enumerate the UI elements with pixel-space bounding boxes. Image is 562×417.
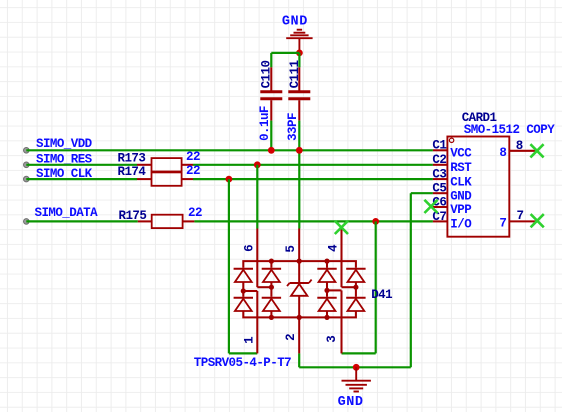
svg-text:2: 2: [284, 334, 298, 341]
node: junction SIMO_RES / D41 pin 6: [254, 161, 261, 168]
svg-text:VCC: VCC: [450, 147, 472, 161]
wire CARD1 C5/GND to bottom ground rail: [411, 192, 433, 194]
svg-text:22: 22: [186, 150, 200, 164]
svg-text:CLK: CLK: [450, 175, 472, 189]
node: junction SIMO_CLK / D41 pin 1 branch: [226, 176, 233, 183]
svg-text:5: 5: [284, 246, 298, 253]
resistor R175: [138, 220, 152, 222]
capacitor C111: [298, 67, 300, 90]
wire SIMO_VDD: [26, 149, 433, 151]
svg-text:D41: D41: [371, 288, 392, 302]
wire SIMO_DATA to R175: [26, 220, 138, 222]
pin 6 lead of D41: [256, 229, 258, 288]
wire R174 to CARD1 C3: [193, 178, 433, 180]
wire SIMO_CLK to R174: [26, 178, 137, 180]
svg-text:33PF: 33PF: [286, 113, 300, 141]
svg-text:7: 7: [517, 209, 524, 223]
power symbol GND (bottom): [355, 367, 357, 380]
diode D41-D lead to midpoint: [326, 282, 328, 297]
zener diode D41-Z (TVS clamp): [298, 261, 300, 283]
wire SIMO_RES to R173: [26, 164, 137, 166]
svg-text:R173: R173: [118, 151, 146, 165]
diode D41-B top lead: [270, 261, 272, 268]
node: D41 col D top rail junction: [324, 259, 329, 264]
svg-text:0.1uF: 0.1uF: [258, 106, 272, 141]
svg-text:4: 4: [327, 244, 341, 252]
svg-text:SIMO_DATA: SIMO_DATA: [35, 206, 99, 220]
svg-text:7: 7: [499, 217, 506, 231]
node: D41 col B midpoint (pin 6): [269, 285, 274, 290]
node: ground rail junction: [353, 364, 360, 371]
node: SIMO_RES left terminal: [24, 162, 30, 168]
svg-text:6: 6: [242, 245, 256, 252]
node: D41 col B top rail junction: [269, 259, 274, 264]
wire SIMO_CLK down to D41 pin 1: [228, 179, 230, 353]
diode array D41 top rail: [243, 261, 356, 268]
svg-text:C1: C1: [432, 139, 446, 153]
wire SIMO_DATA down to D41 pin 3: [375, 221, 377, 353]
svg-text:8: 8: [499, 146, 506, 160]
svg-text:C5: C5: [432, 182, 446, 196]
diode D41-B top: [262, 268, 281, 270]
diode D41-B bottom lead: [270, 311, 272, 317]
node: junction SIMO_DATA / D41 pin 3 branch: [372, 218, 379, 225]
diode D41-B bottom: [262, 297, 281, 299]
pin 8 of CARD1: [509, 150, 537, 152]
wire D41 col A midpoint to pin 1 line: [243, 290, 257, 292]
pin C3/CLK of CARD1: [433, 178, 448, 180]
wire GND to C111: [298, 53, 300, 67]
node: junction C110/SIMO_VDD: [268, 147, 275, 154]
resistor R174: [137, 178, 152, 180]
svg-text:RST: RST: [450, 161, 472, 175]
svg-text:22: 22: [186, 164, 200, 178]
diode D41-A lead to midpoint: [242, 282, 244, 297]
node: SIMO_VDD left terminal: [24, 148, 30, 154]
connector CARD1 body: [447, 137, 509, 237]
pin 2 lead of D41: [298, 317, 300, 353]
diode D41-D top lead: [326, 261, 328, 268]
node: GND junction under top ground: [296, 50, 303, 57]
no-connect X on CARD1 pin 8: [530, 144, 543, 157]
pin C1/VCC of CARD1: [433, 149, 448, 151]
wire C111 column down to D41 pin 5: [298, 121, 300, 229]
diode D41-D bottom: [317, 297, 336, 299]
svg-text:C2: C2: [432, 153, 446, 167]
diode D41-A bottom (anode to GND rail): [234, 297, 253, 299]
node: D41 col B bottom rail junction: [269, 315, 274, 320]
svg-text:C3: C3: [432, 168, 446, 182]
svg-text:C7: C7: [432, 210, 446, 224]
no-connect X on CARD1 pin 7: [531, 214, 544, 227]
wire D41 col D midpoint to pin 3 line: [327, 289, 342, 291]
pin C5/GND of CARD1: [433, 192, 448, 194]
connector CARD1 origin mark: [449, 138, 453, 142]
wire C110 to SIMO_VDD: [270, 121, 272, 151]
svg-text:22: 22: [188, 206, 202, 220]
svg-text:SMO-1512 COPY: SMO-1512 COPY: [464, 123, 555, 137]
diode D41-D bottom lead: [326, 311, 328, 317]
pin C7/I/O of CARD1: [433, 220, 448, 222]
svg-text:8: 8: [516, 139, 523, 153]
wire GND to C110: [271, 52, 299, 54]
svg-text:R174: R174: [118, 165, 147, 179]
node: D41 col D bottom rail junction: [324, 315, 329, 320]
diode D41-E top: [346, 268, 365, 270]
diode D41-A top (cathode to VCC rail): [234, 268, 253, 270]
node: D41 col A midpoint: [241, 288, 246, 293]
svg-text:I/O: I/O: [450, 218, 472, 232]
svg-text:3: 3: [325, 336, 339, 343]
node: D41 col E midpoint (pin 4): [353, 285, 358, 290]
no-connect X on CARD1 pin C6: [424, 200, 437, 213]
node: SIMO_DATA left terminal: [24, 219, 30, 225]
svg-text:VPP: VPP: [450, 203, 471, 217]
pin C6/VPP of CARD1: [433, 206, 448, 208]
node: D41 zener bottom rail junction: [297, 315, 302, 320]
node: D41 zener top rail junction: [297, 259, 302, 264]
pin 4 lead of D41: [340, 228, 342, 288]
node: junction C111/SIMO_VDD: [296, 147, 303, 154]
wire D41 pin 2 to ground rail: [298, 353, 300, 367]
no-connect X on D41 pin 4: [335, 221, 348, 234]
pin 5 lead of D41: [298, 229, 300, 262]
diode D41-E bottom: [346, 297, 365, 299]
svg-text:TPSRV05-4-P-T7: TPSRV05-4-P-T7: [194, 356, 291, 370]
node: SIMO_CLK left terminal: [24, 176, 30, 182]
svg-text:GND: GND: [450, 189, 472, 203]
svg-text:SIMO_VDD: SIMO_VDD: [36, 137, 93, 151]
capacitor C110: [270, 67, 272, 90]
svg-text:GND: GND: [282, 15, 308, 30]
svg-text:GND: GND: [338, 395, 364, 410]
diode D41-E lead to midpoint: [355, 282, 357, 297]
pin 7 of CARD1: [509, 220, 537, 222]
svg-text:1: 1: [242, 337, 256, 344]
diode array D41 bottom rail: [243, 311, 356, 317]
wire R173 to CARD1 C2: [193, 164, 433, 166]
wire SIMO_RES down to D41 pin 6: [256, 165, 258, 229]
diode D41-B lead to midpoint: [270, 282, 272, 297]
diode D41-D top: [317, 268, 336, 270]
pin C2/RST of CARD1: [433, 164, 448, 166]
wire R175 to CARD1 C7: [194, 220, 433, 222]
resistor R173: [137, 164, 152, 166]
node: D41 col D midpoint (pin 3): [324, 288, 329, 293]
